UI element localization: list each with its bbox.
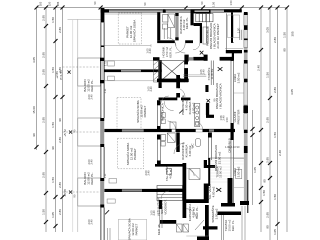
svg-text:90: 90	[58, 118, 62, 122]
svg-text:I BLAGOVAONICA: I BLAGOVAONICA	[219, 83, 223, 108]
svg-text:2.95: 2.95	[42, 69, 46, 75]
svg-text:1.56: 1.56	[266, 72, 270, 78]
svg-text:2.40: 2.40	[90, 219, 94, 225]
unit1 bathroom right wall hatched	[175, 13, 178, 40]
unit1 right interior wall	[231, 13, 233, 43]
svg-text:2.40: 2.40	[90, 159, 94, 165]
svg-text:2.86: 2.86	[273, 87, 277, 93]
svg-text:6.00 m2: 6.00 m2	[192, 102, 196, 113]
svg-text:1.11: 1.11	[103, 173, 107, 178]
unit2 bathroom left wall	[157, 100, 160, 132]
bottom thin line	[186, 235, 208, 237]
left wall window 3	[101, 147, 104, 178]
svg-text:1.50: 1.50	[51, 17, 55, 23]
terrace unit3	[208, 145, 244, 186]
svg-text:3.00 m2: 3.00 m2	[215, 208, 219, 219]
unit1 dining texts	[206, 23, 221, 49]
room texts unit4	[127, 185, 219, 240]
svg-text:1.11: 1.11	[103, 61, 107, 66]
unit2 corridor east double wall	[211, 61, 213, 86]
window boxes near y70 wall	[108, 61, 115, 81]
right room sill wall	[226, 50, 242, 53]
bedroom2 dashed furniture	[117, 97, 141, 130]
svg-text:KER. PL.: KER. PL.	[231, 220, 235, 232]
svg-text:2.95: 2.95	[42, 117, 46, 123]
svg-text:1.50: 1.50	[229, 0, 233, 6]
svg-text:3.05: 3.05	[266, 27, 270, 33]
svg-text:VODOKOT.: VODOKOT.	[164, 199, 168, 215]
svg-text:15.60: 15.60	[32, 106, 36, 114]
room texts unit1 bath/kitchen	[179, 16, 189, 33]
text BALKON	[83, 79, 94, 92]
unit3-4 separation wall y190	[104, 189, 186, 192]
misc small dim texts	[87, 48, 156, 225]
dimension line left 1	[36, 8, 38, 151]
svg-text:2.95: 2.95	[42, 172, 46, 178]
balcony 1 outline	[78, 58, 101, 86]
svg-text:1.50: 1.50	[273, 194, 277, 200]
svg-text:2.86: 2.86	[58, 27, 62, 33]
svg-text:2.40: 2.40	[278, 150, 282, 156]
svg-text:WC: WC	[191, 143, 195, 149]
dimension line right short	[252, 110, 254, 205]
unit2 kitchen appliance column	[195, 104, 200, 127]
unit1 bathroom wall vertical	[157, 13, 160, 41]
right outer wall hatched	[240, 12, 249, 240]
unit1 corridor texts	[162, 46, 173, 58]
svg-text:PARKET: PARKET	[135, 223, 139, 235]
unit4 right lower vertical lines	[160, 209, 162, 228]
unit1 corridor walls y57-60	[153, 55, 234, 62]
unit3 WC fixture	[196, 139, 201, 147]
svg-text:2.86: 2.86	[273, 37, 277, 43]
pier right of y70 wall	[159, 60, 162, 88]
svg-text:PROSTOR: PROSTOR	[237, 109, 241, 125]
svg-text:SPAVAĆA SOBA: SPAVAĆA SOBA	[132, 20, 137, 43]
dimension line right 4	[286, 8, 288, 233]
unit2 balustrade line	[183, 75, 206, 77]
right room furniture	[228, 15, 240, 38]
bedroom1 thin line	[104, 44, 151, 47]
svg-text:2.95: 2.95	[266, 212, 270, 218]
svg-text:21.00 m2 PARKET: 21.00 m2 PARKET	[216, 23, 220, 48]
balcony small texts	[73, 129, 77, 197]
bedroom1 dashed furniture	[118, 13, 142, 44]
svg-text:3.05: 3.05	[32, 57, 36, 63]
bedroom3 dashed furniture	[118, 138, 144, 169]
svg-text:KER. PL.: KER. PL.	[169, 46, 173, 58]
svg-text:150: 150	[48, 1, 52, 6]
svg-text:PARKET: PARKET	[143, 105, 147, 117]
svg-text:2.40: 2.40	[149, 86, 153, 92]
unit4 diagonal	[195, 220, 204, 230]
svg-text:2.86: 2.86	[58, 209, 62, 215]
svg-text:DNEVNI B.: DNEVNI B.	[228, 137, 232, 152]
svg-text:90: 90	[263, 179, 267, 183]
door arcs	[161, 38, 200, 219]
svg-text:P=1.56: P=1.56	[59, 70, 63, 80]
svg-text:1.56: 1.56	[273, 132, 277, 138]
room texts unit3	[125, 142, 222, 181]
unit3 bathroom fixtures	[161, 133, 175, 146]
dimension line top	[37, 7, 288, 9]
svg-text:286: 286	[56, 1, 60, 6]
level marker text left	[55, 70, 63, 80]
right strip shaft box	[236, 169, 242, 178]
kitchen1 counter	[203, 27, 208, 44]
svg-text:1.56: 1.56	[51, 122, 55, 128]
left wall window 2	[101, 83, 104, 118]
svg-text:4.00 m2: 4.00 m2	[212, 186, 216, 197]
svg-text:1.56: 1.56	[51, 177, 55, 183]
svg-text:1.50: 1.50	[225, 117, 229, 123]
dimension numbers left	[32, 15, 62, 218]
dimension line left 4	[62, 8, 64, 233]
svg-text:1.50: 1.50	[42, 209, 46, 215]
svg-text:KUPAONICA: KUPAONICA	[161, 103, 165, 120]
unit2 walls	[157, 75, 214, 118]
svg-text:KER. PL.: KER. PL.	[90, 79, 94, 92]
svg-text:2.40: 2.40	[257, 65, 261, 71]
stairwell west wall hatched	[154, 61, 159, 82]
unit2-3 separation wall y130	[104, 129, 235, 132]
svg-text:2.95: 2.95	[42, 15, 46, 21]
unit separation wall y70 left	[104, 69, 161, 72]
svg-text:305: 305	[39, 1, 43, 6]
svg-text:90: 90	[283, 48, 287, 52]
dimension line right 2	[269, 8, 271, 240]
small dim texts unit2 right	[199, 67, 229, 122]
bathroom1 fixtures	[163, 14, 175, 39]
svg-text:2.95: 2.95	[266, 117, 270, 123]
right strip texts	[228, 72, 241, 177]
unit3 kitchen wall double	[209, 133, 212, 161]
svg-text:+5.72: +5.72	[63, 129, 67, 137]
terrace texts unit4	[224, 219, 235, 231]
svg-text:1.05: 1.05	[51, 212, 55, 218]
svg-text:1.56: 1.56	[212, 1, 216, 7]
svg-text:1.50: 1.50	[283, 32, 287, 38]
kitchen cabinets row unit1	[196, 14, 213, 22]
stair unit2 X box	[160, 61, 185, 82]
unit4 wall y201	[183, 199, 209, 203]
left wall pier 2	[100, 118, 104, 147]
thin lines near y70 wall	[104, 61, 158, 81]
unit2 bathroom fixtures	[161, 113, 176, 131]
dashed projection lines	[63, 67, 101, 192]
svg-text:2.40: 2.40	[147, 170, 151, 176]
level markers mid/low	[63, 129, 67, 197]
bottom room east double wall	[221, 215, 223, 240]
left outer wall solid top	[101, 8, 105, 22]
svg-text:2.40: 2.40	[152, 210, 156, 216]
balcony 3 outline	[78, 178, 101, 206]
svg-text:90: 90	[266, 225, 270, 229]
unit3 walls	[155, 133, 215, 206]
svg-text:2.95: 2.95	[266, 157, 270, 163]
top outer wall	[101, 9, 242, 13]
room texts unit1 bedroom	[126, 20, 137, 43]
svg-text:2.40: 2.40	[148, 48, 152, 54]
svg-text:KER. PL.: KER. PL.	[195, 206, 199, 219]
dimension line right 1	[260, 8, 262, 233]
unit4 walls	[159, 178, 241, 240]
svg-text:305: 305	[291, 31, 295, 36]
room texts unit2	[135, 83, 223, 123]
unit2 tick crosses	[179, 51, 222, 114]
svg-text:1.11: 1.11	[103, 88, 107, 93]
unit1 right room walls	[207, 13, 242, 50]
unit1 kitchen nook wall	[191, 13, 203, 44]
svg-text:3.50 m2: 3.50 m2	[237, 72, 241, 83]
svg-text:2.86: 2.86	[58, 182, 62, 188]
right strip thin division lines	[234, 93, 244, 188]
balcony 2 outline	[78, 118, 101, 146]
svg-text:2.40: 2.40	[202, 69, 206, 75]
svg-text:+8.58: +8.58	[63, 189, 67, 197]
svg-text:KER. PL.: KER. PL.	[90, 172, 94, 185]
svg-text:PARKET: PARKET	[133, 148, 137, 160]
unit4 vertical wall pieces	[183, 205, 187, 218]
unit3 west wall window band	[157, 135, 161, 167]
washer dryer boxes unit4	[177, 224, 189, 232]
dimension ticks	[35, 6, 290, 229]
balcony3 text	[83, 172, 94, 185]
stair unit4 hatched box	[157, 186, 183, 201]
svg-text:1.05: 1.05	[253, 167, 257, 173]
svg-text:11.90 m2: 11.90 m2	[210, 68, 214, 79]
dimension line right 3	[277, 8, 279, 240]
svg-text:1.50: 1.50	[262, 190, 266, 196]
svg-text:KER. PL.: KER. PL.	[157, 223, 161, 236]
left wall window 1	[101, 22, 104, 58]
svg-text:90: 90	[32, 133, 36, 137]
level marker cross	[68, 71, 71, 74]
svg-text:90: 90	[51, 146, 55, 150]
unit4 tick crosses	[105, 188, 221, 214]
svg-text:4.00 m2: 4.00 m2	[169, 168, 173, 179]
svg-text:2.40: 2.40	[90, 94, 94, 100]
svg-text:2.86: 2.86	[58, 137, 62, 143]
right wall black segment y146	[244, 146, 248, 153]
left wall pier 3	[100, 178, 104, 208]
svg-text:2.40: 2.40	[222, 115, 226, 121]
svg-text:15.00 m2: 15.00 m2	[219, 166, 223, 178]
dimension line left 2	[45, 8, 47, 233]
svg-text:3.05: 3.05	[290, 89, 294, 95]
terrain line left of balconies	[68, 20, 101, 233]
top wall inner face line	[104, 13, 157, 15]
window sill box unit3 left	[109, 179, 117, 184]
dimension numbers right	[253, 27, 295, 235]
svg-text:1.50: 1.50	[237, 27, 241, 33]
dimension line left 3	[55, 8, 57, 233]
window sill box unit4 left	[107, 199, 115, 203]
svg-text:1.05: 1.05	[273, 229, 277, 235]
svg-text:2.95: 2.95	[42, 52, 46, 58]
svg-text:3.50 m2: 3.50 m2	[237, 166, 241, 177]
svg-text:KER. PL.: KER. PL.	[185, 17, 189, 30]
left wall pier 1	[100, 58, 104, 83]
window sill line right room	[225, 47, 243, 49]
svg-text:21.00 m2: 21.00 m2	[218, 151, 222, 164]
unit3 laundry fixtures	[167, 169, 201, 180]
right inner wall double line	[231, 57, 234, 204]
bedroom4 furniture	[118, 219, 146, 240]
unit1 bathroom bottom wall	[157, 40, 175, 43]
top tiny texts	[39, 0, 234, 7]
bottom-left radiator lines	[108, 228, 111, 240]
left wall window 4	[101, 208, 104, 240]
